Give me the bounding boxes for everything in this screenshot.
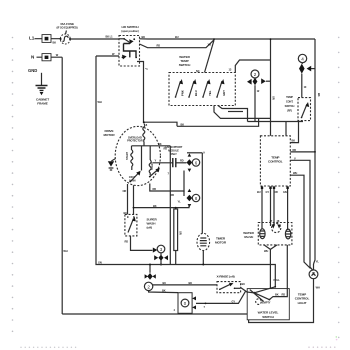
wire aux drop [169, 146, 171, 265]
svg-text:RD: RD [157, 43, 161, 47]
svg-text:(open position): (open position) [121, 29, 138, 33]
svg-text:BK L1: BK L1 [106, 35, 114, 39]
svg-text:WH: WH [264, 249, 268, 253]
cabinet frame label [36, 97, 49, 105]
water temp switch contact 2 [188, 79, 198, 98]
svg-text:YL: YL [178, 199, 182, 203]
svg-text:BK: BK [275, 293, 279, 297]
wire timer motor down [202, 251, 204, 265]
wire temp switch to control run [214, 106, 271, 119]
perforation dots right [338, 37, 340, 339]
svg-text:BU: BU [163, 281, 167, 285]
svg-text:MOTOR: MOTOR [215, 240, 227, 244]
wire temp control right WH [290, 171, 310, 268]
wire connector 2b to motor connector [149, 288, 178, 292]
svg-text:RD: RD [282, 293, 286, 297]
connector 8 [178, 189, 200, 208]
wire motor to capacitor [153, 159, 173, 163]
svg-text:RD: RD [293, 148, 297, 152]
svg-text:BK: BK [158, 142, 162, 146]
drive motor M1 [104, 126, 161, 185]
wire BK top run [140, 35, 316, 40]
svg-text:BK: BK [162, 288, 166, 292]
svg-text:BU: BU [175, 35, 179, 39]
wire right rail [314, 39, 316, 264]
wire loop to connector 2 [229, 60, 271, 73]
perforation dots bottom right [308, 347, 335, 348]
svg-text:EMPTY: EMPTY [262, 300, 271, 304]
wire connector 2b drop [149, 265, 151, 273]
svg-text:MAIN: MAIN [129, 178, 135, 182]
super wash switch [124, 211, 158, 236]
svg-text:SWITCH: SWITCH [285, 104, 295, 108]
fuse F1 (15A) [56, 22, 77, 44]
motor main winding [149, 146, 154, 175]
svg-text:MOTOR: MOTOR [104, 133, 116, 137]
water valve common [272, 223, 281, 232]
svg-text:GND: GND [28, 68, 37, 73]
lid switch S1 [119, 25, 140, 66]
svg-text:FULL: FULL [274, 278, 281, 282]
wire motor internal bar [132, 142, 171, 171]
timer motor [197, 233, 227, 250]
temp cont switch [285, 95, 311, 121]
svg-text:100V: 100V [129, 175, 135, 179]
wire temp control right V [290, 156, 313, 270]
svg-text:YB: YB [208, 43, 212, 47]
wire temp switch drop left [218, 106, 248, 122]
wire left loop rail [96, 56, 275, 287]
svg-text:OR: OR [123, 189, 127, 193]
svg-text:RD: RD [125, 239, 129, 243]
wire drop from top run to temp control [270, 38, 276, 136]
connector 6 [187, 151, 206, 172]
wire N [37, 53, 63, 57]
wire BK long run [177, 118, 259, 126]
temp control [260, 136, 290, 186]
connector 2b [144, 273, 155, 291]
svg-text:YL: YL [316, 259, 320, 263]
motor ground [108, 159, 116, 170]
connector 4 [298, 54, 315, 73]
wire connector 2b to x-rinse [152, 281, 217, 285]
svg-text:BLU: BLU [194, 90, 198, 96]
wire temp control right BK [290, 122, 298, 143]
wire fuse to lid switch BK L1 [70, 35, 119, 39]
svg-text:OR: OR [178, 231, 182, 235]
svg-text:GN: GN [283, 190, 287, 194]
ground GND [28, 68, 48, 95]
wire motor bottom to bus [133, 185, 189, 214]
svg-text:VALVE: VALVE [244, 235, 253, 239]
svg-text:SWITCH: SWITCH [179, 63, 191, 67]
svg-text:ONLY: ONLY [170, 152, 177, 156]
svg-text:BK: BK [317, 93, 321, 97]
overload protector coil [143, 124, 145, 143]
svg-text:GRY: GRY [222, 90, 226, 96]
water temp switch contact 3 [202, 79, 212, 98]
svg-text:RD: RD [180, 159, 184, 163]
svg-text:PNK: PNK [181, 90, 185, 96]
svg-text:LIGHT: LIGHT [298, 301, 307, 305]
wire valve output WH [264, 245, 277, 289]
svg-text:15A FUSE: 15A FUSE [60, 22, 74, 26]
perforation dots left [12, 37, 14, 332]
wire connector 2 down [255, 85, 260, 121]
svg-text:BK: BK [181, 122, 185, 126]
svg-text:PROTECTOR: PROTECTOR [127, 138, 143, 142]
wire light to bottom [249, 279, 320, 323]
svg-text:YEL: YEL [208, 90, 212, 96]
svg-text:BK: BK [189, 281, 193, 285]
connector 2 [247, 70, 271, 85]
wire temp control top stubs [285, 122, 287, 136]
water valve coil 1 [260, 229, 265, 239]
wire right column rail [201, 153, 203, 234]
temp control light [295, 259, 320, 304]
wire temp switch drop contacts bar [228, 111, 243, 113]
wire connector 3 down [154, 253, 168, 266]
svg-text:GN: GN [98, 260, 102, 264]
water level switch [247, 278, 289, 320]
svg-text:L1: L1 [29, 36, 35, 41]
water temp switch contact 1 [175, 79, 185, 98]
svg-text:WH: WH [316, 285, 320, 289]
wire motor connector to water level switch [196, 291, 246, 309]
motor connector block [174, 293, 197, 314]
wire connector 4 down [302, 74, 321, 98]
wire motor to super wash [123, 184, 128, 214]
svg-text:WH: WH [293, 171, 297, 175]
wire node bus to temp control [248, 121, 304, 123]
water valve [243, 219, 292, 245]
water temp switch contact 4 [216, 79, 226, 98]
svg-text:BK: BK [53, 40, 57, 44]
stray colored dots [336, 336, 338, 340]
svg-text:CONT.: CONT. [286, 100, 294, 104]
svg-text:TEMP: TEMP [286, 95, 293, 99]
temp control bottom terminals [257, 186, 289, 193]
svg-text:START: START [125, 152, 129, 160]
svg-text:RD: RD [153, 187, 157, 191]
motor contact 2 [149, 168, 160, 178]
motor start winding [125, 146, 133, 170]
svg-text:FRAME: FRAME [37, 101, 48, 105]
wire lid switch to drive motor rail [137, 62, 148, 123]
svg-text:LID SWITCH: LID SWITCH [121, 25, 139, 29]
x-rinse switch [216, 274, 240, 292]
wire W into lid switch [96, 52, 119, 56]
perforation dots bottom left [20, 347, 76, 348]
svg-text:WH: WH [63, 249, 67, 253]
water valve coil 2 [285, 229, 290, 239]
wire x-rinse to water level switch [241, 282, 254, 293]
wire connector column [183, 171, 185, 193]
wire motor top link [143, 121, 177, 127]
wire super wash to connector 3 [125, 236, 153, 251]
resistor R1 [174, 207, 183, 265]
wire motor to connector 8 [150, 184, 184, 197]
wire neutral left rail [62, 57, 68, 314]
capacitor C1 (cap support module) [165, 145, 187, 176]
svg-text:(RF): (RF) [287, 108, 292, 112]
svg-text:GY: GY [232, 299, 236, 303]
svg-text:BK: BK [142, 35, 146, 39]
svg-text:CONTROL: CONTROL [268, 160, 283, 164]
svg-text:BK: BK [153, 204, 157, 208]
wire RD from lid switch [140, 40, 215, 48]
svg-text:RD: RD [171, 193, 175, 197]
svg-text:BU: BU [242, 282, 246, 286]
wire temp control right RD [290, 148, 316, 153]
svg-text:(off): (off) [147, 226, 153, 230]
connector 3 [153, 245, 165, 253]
svg-text:BK: BK [292, 139, 296, 143]
svg-text:X-RINSE (off): X-RINSE (off) [216, 274, 234, 278]
svg-text:SWITCH: SWITCH [262, 315, 274, 319]
svg-text:4: 4 [301, 57, 304, 62]
water temp switch [169, 55, 235, 106]
wire valve feeds [262, 189, 288, 230]
svg-text:CAP SUPPORT: CAP SUPPORT [165, 145, 183, 149]
terminal L1 [29, 35, 51, 43]
wire water level switch output [269, 245, 287, 300]
svg-text:WH: WH [98, 100, 102, 104]
wire L1 to fuse [35, 39, 61, 45]
terminal N [31, 54, 51, 61]
wire bottom rail [62, 313, 247, 315]
svg-text:GY: GY [266, 190, 270, 194]
svg-text:BU: BU [257, 190, 261, 194]
svg-text:OR: OR [272, 96, 276, 100]
svg-text:2: 2 [254, 72, 257, 77]
motor contact 1 [129, 171, 141, 183]
svg-text:2: 2 [147, 284, 150, 289]
wire YB to water temp switch [205, 40, 215, 72]
svg-text:(IF SO EQUIPPED): (IF SO EQUIPPED) [56, 26, 77, 30]
